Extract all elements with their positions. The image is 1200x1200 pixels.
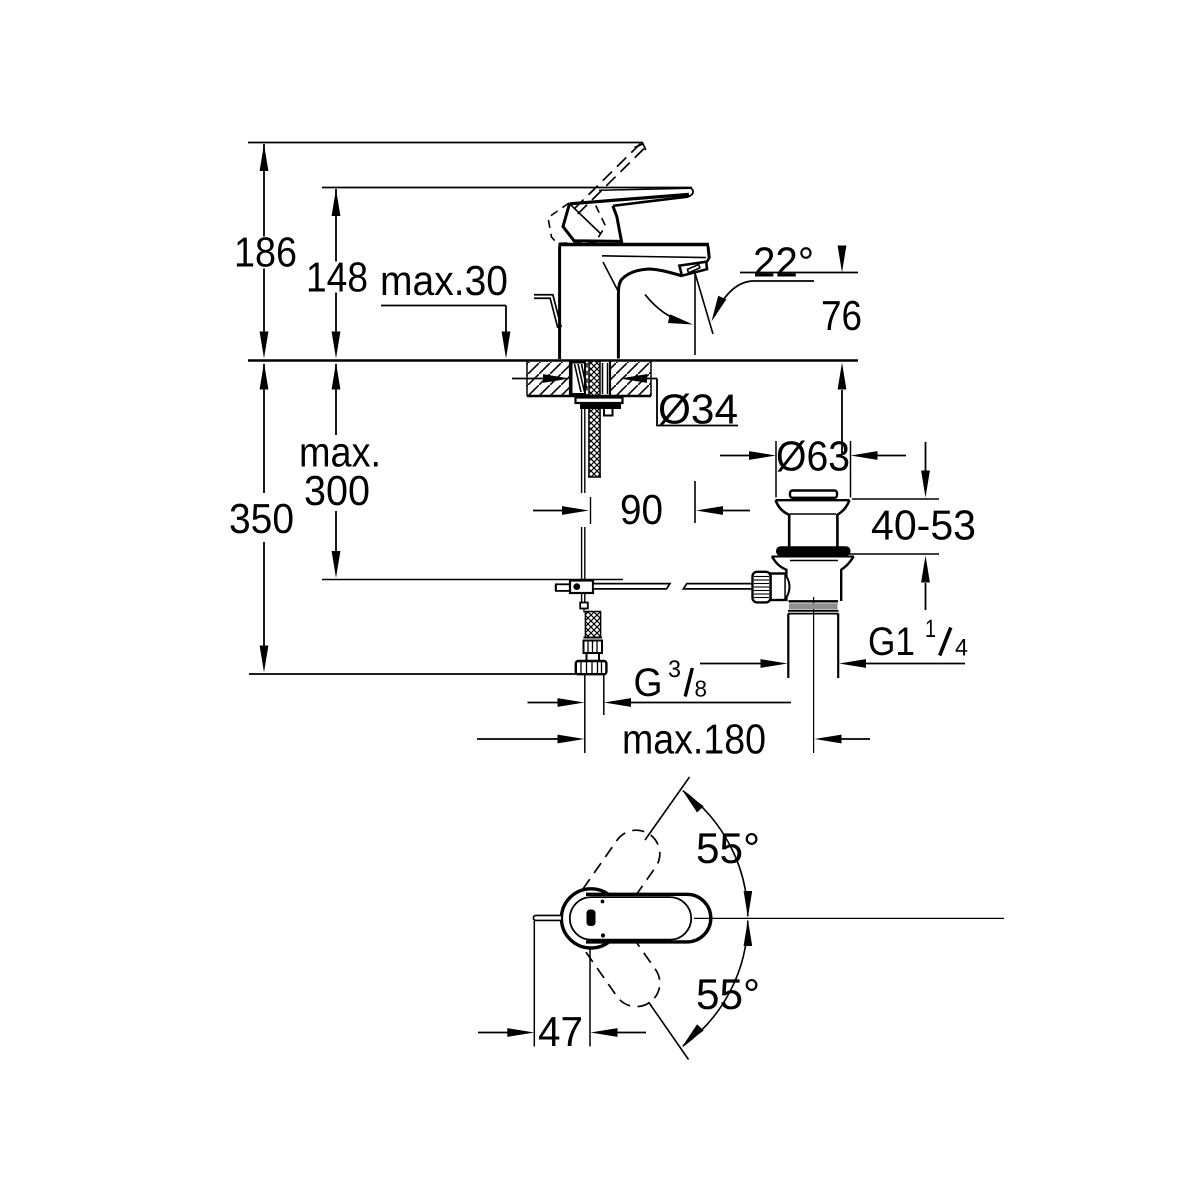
arrowhead 148 top (332, 189, 341, 216)
dimension 148 reference line (322, 187, 692, 189)
arrowhead max.300 top (332, 363, 341, 390)
dimension 148 dim line (335, 189, 337, 262)
arrowhead 90 right (696, 506, 723, 515)
arrowhead max.180 left (558, 735, 585, 744)
dimension 22deg leader curve (715, 281, 815, 316)
handle blade underside (613, 197, 689, 206)
aerator outer (679, 262, 707, 276)
arrowhead lower arc at centerline (744, 920, 753, 947)
svg-text:Ø63: Ø63 (776, 433, 850, 480)
dimension 186 extension/dim line (263, 144, 265, 237)
top view centerline (694, 917, 1004, 919)
dimension 22deg horizontal reference (740, 272, 858, 274)
hose top collar (585, 611, 601, 613)
crimp sleeve (584, 641, 603, 654)
spout outlet extension line lower segment (694, 481, 696, 523)
drain lower body inner line (790, 560, 838, 562)
dimension max.300 dim line (335, 364, 337, 435)
handle blade tip (688, 188, 693, 196)
pop-up rod middle segment (581, 527, 583, 581)
handle blade thick top edge (570, 194, 690, 204)
svg-text:4: 4 (955, 635, 968, 662)
dashed pivot outline (548, 203, 606, 243)
dimension max.30 leader (381, 305, 506, 307)
pop-up rod stub (top view) (533, 915, 561, 920)
faucet inner top line (602, 256, 706, 258)
drain lower flange top edge (772, 556, 855, 558)
arrowhead Dia63 right (851, 451, 878, 460)
lever white cover (591, 894, 711, 942)
arrowhead 186 bottom (260, 332, 269, 359)
dimension Dia34 leader (657, 379, 738, 426)
drain plug cap (790, 491, 837, 498)
pop-up rod hidden dashed (in hole) (586, 363, 588, 395)
second hose stub below nut (604, 406, 613, 416)
arrowhead upper arc at radial line (683, 791, 704, 813)
knurled knob (753, 572, 771, 603)
mounting nut (580, 403, 621, 409)
arrowhead 350 bottom (260, 646, 269, 673)
dimension 40-53 top dim line (925, 442, 927, 471)
svg-text:Ø34: Ø34 (658, 386, 738, 433)
drain centerline (813, 597, 815, 753)
drain thread relief band (789, 603, 838, 609)
arrowhead 40-53 bottom (921, 556, 930, 583)
lever inner face line (570, 897, 691, 940)
svg-text:55°: 55° (696, 825, 760, 873)
svg-text:40-53: 40-53 (871, 502, 976, 549)
lower 55deg arc (683, 921, 748, 1047)
spacer sleeve right of hose (602, 363, 604, 394)
arrowhead upper arc at centerline (744, 891, 753, 918)
arrowhead max.30 (502, 332, 511, 359)
svg-text:max.180: max.180 (622, 716, 766, 763)
connector nut G3/8 (576, 661, 607, 674)
clevis pivot ball (573, 583, 580, 590)
clevis body (570, 581, 593, 594)
braided hose below deck (589, 409, 600, 477)
faucet inner diagonal line (603, 262, 618, 290)
horizontal drain rod segment 1 (593, 584, 670, 589)
handle body crease line (570, 204, 601, 233)
braided hose lower segment (586, 612, 601, 638)
dashed lever position upper 55deg (558, 821, 669, 951)
drain tailpipe (787, 614, 789, 678)
arrowhead max.300 bottom (332, 551, 341, 578)
arrowhead 47 right (591, 1028, 618, 1037)
dimension 40-53 bottom reference line (849, 553, 939, 555)
clamp wedge in hole (572, 363, 586, 395)
screw dot lower (601, 933, 605, 937)
svg-text:350: 350 (229, 495, 294, 542)
spout stream 22deg line (695, 273, 713, 334)
housing bulge curve (786, 576, 790, 599)
slash of G1 1/4 (940, 628, 951, 656)
dimension 22deg left arc (645, 295, 686, 324)
hose ferrule lines (584, 637, 603, 639)
knob housing block (771, 574, 786, 601)
upper 55deg radial line (645, 777, 690, 840)
pop-up rod wire end (583, 609, 585, 613)
dimension max.180 dim lines (477, 738, 558, 740)
dimension G3/8 dim lines (528, 702, 559, 704)
arrowhead 22deg leader (712, 296, 727, 322)
dimension 40-53 top reference line (852, 498, 939, 500)
dimension 90 centerline tick (590, 497, 592, 524)
arrowhead G1 1/4 right (839, 659, 866, 668)
braided supply hose through hole (589, 362, 600, 397)
dashed blade line 2 (577, 149, 645, 216)
svg-text:186: 186 (234, 229, 297, 276)
rod lower collar (581, 594, 583, 603)
svg-text:76: 76 (821, 292, 862, 339)
spout outlet vertical extension line (694, 273, 696, 355)
lower 55deg radial line (649, 1002, 689, 1060)
faucet base circle (top view) (561, 889, 620, 948)
dimension 90 dim line left (533, 510, 563, 512)
arrowhead 76 top (838, 246, 847, 273)
svg-text:8: 8 (695, 676, 708, 702)
svg-text:22°: 22° (753, 239, 814, 286)
drain lower flare (772, 557, 786, 602)
clevis end cap (555, 585, 557, 592)
dimension max.300 bottom reference line (322, 579, 623, 581)
dimension G1 1/4 dim lines (700, 663, 761, 665)
deck hatch right part (610, 362, 651, 396)
dimension 47 dim lines (478, 1032, 508, 1034)
arrowhead 350 top (260, 363, 269, 390)
deck hatch left part (527, 362, 570, 396)
arrowhead G1 1/4 left (761, 659, 788, 668)
pop-up actuator hook (534, 297, 560, 328)
arrowhead 186 top (260, 144, 269, 171)
arrowhead 76 bottom (838, 363, 847, 390)
arrowhead max.180 right (815, 735, 842, 744)
mounting hole right wall (609, 361, 611, 396)
dashed blade tip cap (635, 144, 646, 150)
faucet body right edge (708, 246, 709, 258)
svg-text:90: 90 (620, 486, 663, 533)
arrowhead 148 bottom (332, 332, 341, 359)
svg-text:47: 47 (538, 1008, 583, 1055)
handle blade thin top line (599, 188, 691, 190)
supply pipe right edge (603, 675, 605, 716)
arrowhead Dia34 right (620, 374, 647, 383)
arrowhead 22deg left arc (668, 314, 693, 324)
drain upper flare (776, 499, 850, 501)
slash of G3/8 (685, 668, 692, 697)
supply pipe left edge (584, 675, 586, 754)
upper 55deg arc (683, 791, 748, 917)
arrowhead 90 left (562, 506, 589, 515)
arrowhead 40-53 top (921, 471, 930, 498)
dimension 47 extension lines (533, 921, 535, 1047)
drain tail rings (788, 610, 839, 612)
deck right edge (650, 361, 652, 396)
clevis left stub (556, 584, 570, 591)
horizontal drain rod segment 2 (683, 584, 752, 589)
dimension Dia63 extension lines (775, 441, 777, 498)
svg-text:3: 3 (668, 656, 681, 683)
svg-text:G: G (634, 661, 663, 705)
arrowhead Dia34 left (543, 374, 570, 383)
dashed lever position lower 55deg (558, 886, 669, 1016)
dimension 40-53 bottom dim line (925, 583, 927, 610)
svg-text:1: 1 (925, 615, 936, 643)
spout underside curve and neck (618, 269, 682, 359)
dimension 76 extension line (841, 246, 843, 250)
dashed blade line 1 (571, 144, 641, 213)
arrowhead G3/8 left (558, 698, 585, 707)
svg-text:148: 148 (306, 254, 368, 301)
mounting flange plate (576, 398, 623, 404)
dimension Dia34 arrow lines (512, 378, 544, 380)
drain upper body inner line (790, 513, 836, 515)
svg-text:max.30: max.30 (380, 257, 508, 304)
svg-text:300: 300 (304, 467, 370, 514)
drain rubber gasket (776, 546, 851, 556)
arrowhead 47 left (507, 1028, 534, 1037)
aerator inner (688, 265, 700, 274)
drain body bottom edge (789, 600, 839, 602)
deck left edge (526, 361, 528, 396)
screw dot upper (601, 900, 605, 904)
deck bottom line (527, 395, 651, 398)
svg-text:G1: G1 (868, 620, 915, 664)
faucet body left edge (558, 246, 561, 359)
dimension 90 dim line right (722, 510, 750, 512)
deck top surface line (248, 359, 858, 362)
neck (587, 653, 600, 661)
mounting hole left wall (569, 361, 571, 396)
dimension 350 bottom reference line (249, 673, 578, 675)
pop-up rod below deck (581, 404, 583, 494)
dimension Dia63 dim lines (720, 455, 749, 457)
arrowhead Dia63 left (749, 451, 776, 460)
arrowhead G3/8 right (604, 698, 631, 707)
dimension 186 reference line top (248, 142, 643, 144)
arrowhead lower arc at radial line (683, 1024, 704, 1046)
dimension 350 dim line (263, 364, 265, 493)
faucet body top edge (559, 243, 710, 247)
lever outline (top view) (586, 894, 711, 942)
handle pivot body outline (563, 204, 622, 242)
cartridge slot (587, 910, 596, 927)
